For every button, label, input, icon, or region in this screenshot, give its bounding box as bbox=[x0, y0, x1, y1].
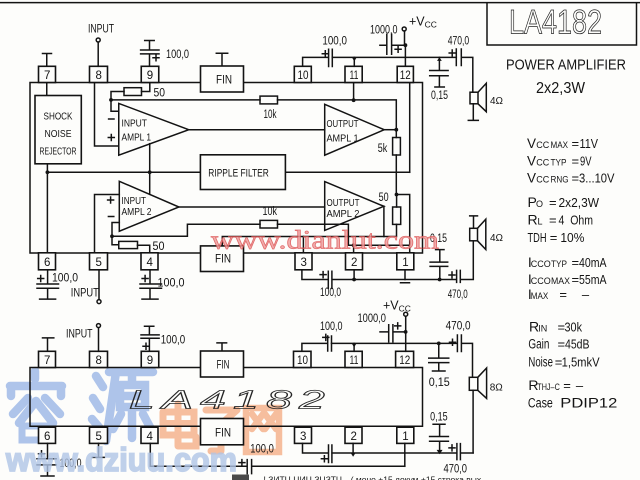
wire: pin8 riser to input ampl1 plus bbox=[95, 83, 119, 147]
svg-text:8Ω: 8Ω bbox=[490, 383, 504, 394]
pin 3 bbox=[295, 253, 312, 270]
svg-text:100,0: 100,0 bbox=[158, 278, 185, 290]
wire: ch1 feedback line left bbox=[111, 99, 260, 101]
svg-text:INPUT: INPUT bbox=[71, 288, 99, 300]
pin 10 bbox=[294, 66, 311, 82]
capacitor 100,0 at pin4 bbox=[140, 270, 162, 299]
speaker 8ohm bbox=[469, 377, 478, 390]
pin 9 lower bbox=[141, 351, 159, 367]
svg-text:9: 9 bbox=[147, 70, 153, 82]
svg-text:100,0: 100,0 bbox=[320, 321, 343, 333]
wire: output ampl1 to 5k node bbox=[384, 129, 396, 131]
svg-text:1: 1 bbox=[402, 431, 408, 443]
shock noise rejector block bbox=[46, 83, 48, 96]
svg-text:–: – bbox=[576, 378, 584, 393]
node: ch1 minus node bbox=[109, 98, 113, 102]
svg-text:2x2,3W: 2x2,3W bbox=[536, 80, 586, 97]
node: vcc cap junction lower bbox=[404, 330, 408, 334]
svg-text:8: 8 bbox=[96, 355, 102, 367]
node: ch2 minus node bbox=[110, 234, 114, 238]
wire: rail from ripple filter to pin12 drop bbox=[285, 171, 409, 173]
node: pin11 lower arrow bbox=[352, 343, 357, 347]
wire: pin2 bottom riser bbox=[353, 270, 355, 280]
ground at pin5 lower bbox=[92, 443, 104, 457]
IC1 body bbox=[30, 83, 423, 254]
svg-text:1000,0: 1000,0 bbox=[358, 313, 387, 325]
svg-text:MAX: MAX bbox=[531, 291, 549, 301]
svg-text:OUTPUT: OUTPUT bbox=[327, 118, 359, 130]
svg-text:1,5mkV: 1,5mkV bbox=[562, 355, 600, 370]
svg-text:=: = bbox=[550, 230, 558, 245]
wire: pin3 output wire ch2 bbox=[302, 270, 328, 280]
node: ch2 output node bbox=[395, 193, 399, 197]
wire: pin5 riser to ampl2 plus bbox=[95, 195, 120, 253]
svg-text:7: 7 bbox=[44, 70, 50, 82]
node: rail-shock junction bbox=[46, 170, 50, 174]
svg-text:FIN: FIN bbox=[215, 254, 231, 266]
svg-text:RIPPLE FILTER: RIPPLE FILTER bbox=[208, 168, 269, 180]
pin 2 lower bbox=[345, 427, 362, 443]
wire: ch2 feedback right to pin2 line bbox=[278, 224, 410, 245]
svg-text:470,0: 470,0 bbox=[448, 35, 470, 47]
wire: 5k top lead bbox=[395, 130, 397, 138]
svg-text:=: = bbox=[563, 378, 571, 393]
svg-text:0,15: 0,15 bbox=[430, 412, 448, 424]
svg-text:1000,0: 1000,0 bbox=[370, 25, 398, 37]
title box LA4182 bbox=[487, 3, 637, 46]
svg-text:3...10V: 3...10V bbox=[579, 171, 615, 186]
capacitor 100,0 series bus bbox=[239, 460, 245, 466]
svg-text:4Ω: 4Ω bbox=[490, 233, 504, 244]
op-amp input ampl 1 bbox=[119, 103, 189, 155]
svg-text:LA4182: LA4182 bbox=[509, 4, 602, 42]
svg-text:100,0: 100,0 bbox=[250, 444, 273, 456]
svg-text:3: 3 bbox=[301, 257, 307, 269]
svg-text:=: = bbox=[558, 337, 566, 352]
wire: bus to pin1 lower bbox=[252, 465, 405, 467]
input terminal ch2 bbox=[98, 270, 100, 300]
svg-text:www.dziuu.com: www.dziuu.com bbox=[5, 441, 237, 478]
svg-text:TYP: TYP bbox=[551, 157, 567, 168]
pin 3 lower bbox=[295, 427, 312, 443]
wire: lower out rail to 470 cap bbox=[332, 452, 456, 454]
svg-text:5k: 5k bbox=[378, 143, 388, 155]
svg-text:100,0: 100,0 bbox=[52, 273, 78, 285]
wire: ampl2 minus branch bbox=[112, 223, 119, 245]
pin 4 lower bbox=[141, 427, 158, 443]
svg-text:9: 9 bbox=[147, 355, 153, 367]
svg-text:INPUT: INPUT bbox=[122, 118, 148, 130]
svg-text:470,0: 470,0 bbox=[448, 289, 468, 301]
svg-text:+VCC: +VCC bbox=[409, 15, 437, 30]
svg-text:2x2,3W: 2x2,3W bbox=[559, 195, 600, 210]
pin 9 bbox=[141, 66, 159, 82]
svg-text:4 Ohm: 4 Ohm bbox=[559, 212, 594, 227]
svg-text:4: 4 bbox=[147, 257, 154, 269]
svg-text:REJECTOR: REJECTOR bbox=[40, 146, 77, 158]
node: bias rail junction bbox=[148, 170, 152, 174]
resistor 50 ch1 bbox=[124, 88, 142, 96]
wire: pin3 lower output wire bbox=[303, 443, 329, 453]
wire: fin line to 50 resistor ch2out bbox=[222, 224, 396, 246]
wire: pin3 riser tap bbox=[302, 237, 304, 253]
wire: resistor50 to minus node bbox=[111, 92, 124, 100]
svg-text:CC: CC bbox=[536, 140, 549, 150]
svg-text:50: 50 bbox=[379, 192, 389, 204]
pin 6 bbox=[39, 253, 56, 270]
svg-text:V: V bbox=[527, 171, 536, 186]
node: pin2 tap bbox=[352, 243, 356, 247]
watermark: salmon chinese character WANG bbox=[246, 408, 279, 452]
svg-text:CCO: CCO bbox=[531, 259, 551, 269]
svg-text:AMPL 2: AMPL 2 bbox=[122, 206, 152, 218]
svg-text:IN: IN bbox=[538, 324, 547, 334]
svg-text:2: 2 bbox=[351, 257, 357, 269]
svg-text:9V: 9V bbox=[580, 153, 592, 168]
wire: speaker8 bottom lead bbox=[472, 390, 474, 453]
heatsink FIN block top2 bbox=[217, 343, 227, 351]
svg-text:O: O bbox=[536, 199, 543, 209]
pin 7 lower bbox=[43, 338, 54, 351]
wire: resistor50 ch2 to pin4 bbox=[138, 245, 150, 253]
capacitor 100,0 series lower bbox=[323, 334, 329, 340]
svg-text:Noise: Noise bbox=[528, 355, 553, 370]
svg-text:10: 10 bbox=[297, 355, 308, 367]
capacitor 100,0 series ch1 bbox=[322, 51, 328, 57]
svg-text:=: = bbox=[549, 195, 557, 210]
wire: pin11 riser bbox=[353, 83, 355, 100]
wire: 50 ch2out top lead bbox=[396, 195, 398, 208]
wire: bias tap between amps bbox=[149, 144, 151, 195]
svg-text:1: 1 bbox=[402, 257, 408, 269]
capacitor 100,0 at pin9 bbox=[141, 41, 159, 67]
svg-text:3: 3 bbox=[300, 431, 306, 443]
svg-text:100,0: 100,0 bbox=[320, 287, 341, 299]
op-amp input ampl 2 bbox=[119, 181, 179, 231]
wire: ampl1 output to output ampl1 bbox=[189, 129, 325, 131]
svg-text:POWER AMPLIFIER: POWER AMPLIFIER bbox=[506, 58, 626, 74]
svg-text:Case: Case bbox=[528, 396, 553, 411]
wire: pin10 output wire ch1 bbox=[303, 57, 328, 66]
pin 12 lower bbox=[396, 351, 414, 367]
pin 2 bbox=[346, 253, 363, 270]
svg-text:0,15: 0,15 bbox=[429, 377, 450, 389]
svg-text:TDH: TDH bbox=[528, 230, 547, 245]
pin 5 bbox=[90, 253, 108, 270]
svg-text:R: R bbox=[528, 211, 538, 227]
svg-text:THJ–C: THJ–C bbox=[537, 382, 560, 392]
svg-text:11V: 11V bbox=[580, 136, 599, 151]
top border line bbox=[0, 2, 640, 4]
svg-text:CCO: CCO bbox=[531, 276, 551, 286]
ripple filter block bbox=[200, 155, 285, 190]
capacitor 100,0 at pin6 bbox=[37, 270, 59, 299]
resistor 50 ch2out vertical bbox=[393, 207, 401, 224]
svg-text:=: = bbox=[572, 153, 580, 168]
svg-text:10%: 10% bbox=[560, 230, 584, 245]
wire: pin11 top riser bbox=[353, 57, 355, 66]
ground at speaker1 bbox=[468, 104, 478, 121]
label minus ampl1 bbox=[109, 118, 114, 120]
heatsink FIN block bottom1 bbox=[201, 246, 244, 272]
svg-text:INPUT: INPUT bbox=[88, 24, 114, 36]
svg-text:100,0: 100,0 bbox=[166, 49, 189, 61]
wire: pin2 lower riser bbox=[352, 443, 354, 453]
label plus ampl2 bbox=[108, 197, 114, 203]
wire: pin4 lower bus bbox=[150, 443, 246, 466]
svg-text:7: 7 bbox=[44, 355, 50, 367]
svg-text:=: = bbox=[572, 272, 580, 287]
pin 6 lower bbox=[39, 427, 56, 443]
svg-text:LA4182: LA4182 bbox=[129, 385, 332, 415]
op-amp output ampl 2 bbox=[325, 182, 384, 231]
wire: ch1 minus branch bbox=[111, 100, 119, 111]
pin 5 lower bbox=[90, 427, 108, 443]
wire: pin1 lower riser bbox=[404, 443, 406, 466]
svg-text:MAX: MAX bbox=[551, 140, 569, 151]
svg-text:www.dianlut.com: www.dianlut.com bbox=[211, 226, 439, 255]
wire: ch1 output rail to speaker bbox=[332, 56, 456, 58]
speaker 4ohm ch1 bbox=[470, 92, 478, 104]
pin 8 bbox=[90, 66, 108, 82]
svg-text:RNG: RNG bbox=[551, 175, 569, 186]
svg-text:6: 6 bbox=[44, 257, 50, 269]
heatsink FIN block top1 bbox=[216, 53, 227, 66]
svg-text:=: = bbox=[572, 171, 580, 186]
svg-text:10: 10 bbox=[298, 70, 309, 82]
resistor 10k ch1 bbox=[260, 96, 278, 104]
capacitor 0,15 lower bottom bbox=[430, 424, 449, 452]
wire: 5k bottom lead down to ch2 output node bbox=[395, 155, 397, 195]
capacitor 100,0 at pin9 lower bbox=[141, 326, 159, 351]
svg-text:AMPL 1: AMPL 1 bbox=[122, 132, 152, 144]
svg-text:+VCC: +VCC bbox=[383, 299, 411, 314]
node: 0,15 ch2 junction bbox=[438, 278, 442, 282]
svg-text:=: = bbox=[572, 136, 580, 151]
pin 8 lower bbox=[90, 351, 108, 367]
svg-text:MAX: MAX bbox=[551, 276, 571, 287]
capacitor 470,0 ch2 bbox=[449, 272, 455, 278]
wire: pin9 riser bbox=[142, 83, 150, 92]
pin 11 bbox=[345, 66, 362, 82]
heatsink FIN block bottom2 bbox=[201, 419, 244, 445]
node: vcc cap junction bbox=[404, 43, 408, 47]
watermark: salmon chinese character ZI bbox=[203, 410, 240, 451]
node: pin11 tap bbox=[352, 98, 356, 102]
svg-text:40mA: 40mA bbox=[579, 255, 607, 270]
pin 1 bbox=[397, 253, 414, 270]
pin 10 lower bbox=[294, 351, 312, 367]
svg-text:NOISE: NOISE bbox=[45, 128, 72, 140]
svg-text:–: – bbox=[582, 287, 590, 302]
svg-text:=: = bbox=[549, 212, 557, 227]
wire: ch1 feedback line right bbox=[278, 100, 397, 130]
capacitor 0,15 ch1 bbox=[437, 57, 442, 61]
svg-text:12: 12 bbox=[400, 70, 411, 82]
svg-text:PDIP12: PDIP12 bbox=[560, 395, 617, 411]
svg-text:FIN: FIN bbox=[217, 360, 230, 372]
wire: ch2 output rail to speaker bbox=[333, 279, 457, 281]
label minus ampl2 bbox=[108, 216, 113, 218]
svg-text:INPUT: INPUT bbox=[66, 329, 93, 341]
capacitor 0,15 lower top bbox=[437, 342, 441, 346]
svg-text:0,15: 0,15 bbox=[431, 90, 448, 102]
resistor 5k bbox=[393, 138, 401, 156]
svg-text:FIN: FIN bbox=[216, 75, 232, 87]
svg-text:L: L bbox=[538, 216, 543, 226]
wire: pin12 internal drop bbox=[409, 83, 411, 173]
pin 7 bbox=[43, 54, 52, 67]
svg-text:SHOCK: SHOCK bbox=[44, 111, 73, 123]
svg-text:5: 5 bbox=[96, 257, 102, 269]
resistor 10k ch2 bbox=[260, 220, 278, 228]
ground at pin1 bbox=[401, 270, 410, 283]
wire: pin2 riser bbox=[353, 245, 355, 253]
svg-text:45dB: 45dB bbox=[565, 337, 590, 352]
svg-text:V: V bbox=[527, 136, 536, 151]
svg-text:11: 11 bbox=[350, 355, 359, 367]
wire: rail from shock box to ripple filter bbox=[47, 164, 200, 253]
node: pin2 lower arrow bbox=[351, 453, 356, 457]
capacitor 100,0 at pin6 lower bbox=[37, 443, 56, 476]
svg-text:10k: 10k bbox=[263, 206, 278, 218]
capacitor 470,0 lower bottom bbox=[449, 445, 455, 451]
svg-text:FIN: FIN bbox=[215, 428, 231, 440]
svg-text:11: 11 bbox=[350, 70, 359, 82]
svg-text:2: 2 bbox=[351, 431, 357, 443]
svg-text:INPUT: INPUT bbox=[122, 195, 147, 207]
svg-text:TYP: TYP bbox=[551, 259, 567, 270]
wire: ampl2 output to output ampl2 bbox=[179, 206, 325, 208]
svg-text:8: 8 bbox=[96, 70, 102, 82]
wire: lower output rail to speaker bbox=[332, 342, 457, 344]
IC2 body bbox=[30, 368, 423, 427]
watermark: salmon chinese character DIAN bbox=[163, 404, 196, 446]
svg-text:CC: CC bbox=[536, 175, 549, 185]
svg-text:=: = bbox=[559, 287, 567, 302]
svg-text:AMPL 2: AMPL 2 bbox=[327, 208, 360, 220]
svg-text:—!.ЗИТЦ ЦИЦ ЗЦЗТЦ—( моно +15 д: —!.ЗИТЦ ЦИЦ ЗЦЗТЦ—( моно +15 докум +15 с… bbox=[255, 475, 482, 480]
capacitor 100,0 series ch2 bbox=[320, 272, 326, 278]
svg-text:=: = bbox=[572, 255, 580, 270]
svg-text:12: 12 bbox=[399, 355, 410, 367]
node: pin2 bottom junction bbox=[352, 278, 356, 282]
wire: pin11 lower riser bbox=[353, 343, 355, 351]
pin 1 lower bbox=[397, 427, 414, 443]
svg-text:CC: CC bbox=[536, 157, 549, 167]
watermark: blue chinese character RONG bbox=[10, 371, 62, 440]
capacitor 100,0 series lower out bbox=[321, 456, 327, 462]
svg-text:4Ω: 4Ω bbox=[490, 96, 504, 107]
bottom cut-off text row bbox=[232, 475, 482, 480]
svg-text:55mA: 55mA bbox=[579, 272, 607, 287]
wire: ch2 feedback jog bbox=[112, 224, 260, 236]
resistor 50 ch2 bbox=[119, 241, 138, 248]
pin 4 bbox=[141, 253, 158, 270]
svg-text:50: 50 bbox=[153, 241, 165, 253]
svg-text:100,0: 100,0 bbox=[161, 335, 186, 347]
speaker 4ohm ch2 bbox=[470, 216, 478, 228]
svg-text:V: V bbox=[527, 153, 536, 168]
svg-text:AMPL 1: AMPL 1 bbox=[327, 133, 359, 145]
svg-text:30k: 30k bbox=[565, 320, 583, 335]
svg-text:50: 50 bbox=[154, 88, 166, 100]
pin 11 lower bbox=[345, 351, 362, 367]
svg-text:470,0: 470,0 bbox=[446, 321, 471, 333]
watermark: blue chinese character YUAN bbox=[92, 372, 153, 441]
svg-text:10k: 10k bbox=[264, 109, 277, 121]
node: pin11 top arrow bbox=[352, 57, 357, 61]
spec text block bbox=[527, 136, 618, 411]
wire: ch2 output stub to pin1 drop bbox=[397, 195, 410, 253]
label plus ampl1 bbox=[108, 135, 114, 141]
op-amp output ampl 1 bbox=[325, 104, 385, 155]
capacitor 0,15 ch2 bbox=[430, 250, 448, 280]
wire: pin10 wire lower bbox=[302, 343, 327, 351]
svg-text:100,0: 100,0 bbox=[322, 35, 347, 47]
pin 12 bbox=[397, 66, 413, 82]
node: ch1 output node bbox=[394, 128, 398, 132]
wire: output ampl2 down to fin line bbox=[383, 206, 385, 236]
svg-text:Gain: Gain bbox=[528, 337, 549, 352]
